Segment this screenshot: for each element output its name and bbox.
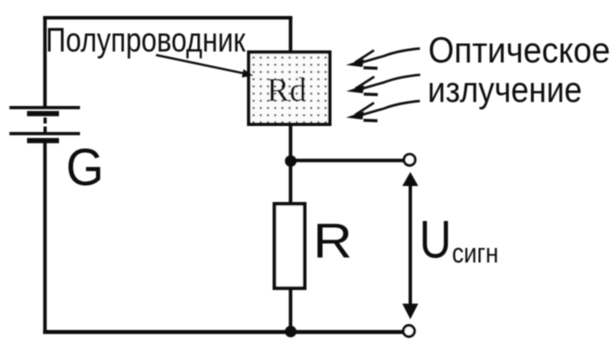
svg-text:излучение: излучение (428, 69, 582, 110)
svg-text:R: R (313, 215, 352, 269)
svg-text:U: U (419, 210, 451, 269)
svg-text:G: G (66, 138, 104, 196)
svg-text:Полупроводник: Полупроводник (46, 21, 247, 59)
svg-text:Rd: Rd (267, 72, 307, 109)
svg-text:Оптическое: Оптическое (428, 30, 610, 71)
svg-text:сигн: сигн (452, 237, 499, 268)
